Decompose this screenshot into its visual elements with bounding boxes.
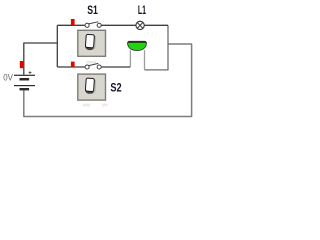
svg-text:0V: 0V (3, 73, 13, 84)
svg-text:L1: L1 (138, 3, 146, 17)
svg-text:S2: S2 (110, 81, 121, 95)
svg-text:S1: S1 (87, 3, 98, 17)
